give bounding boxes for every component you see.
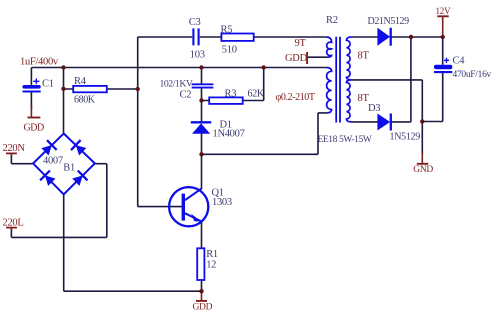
svg-text:R2: R2: [326, 15, 338, 26]
svg-text:680K: 680K: [74, 95, 96, 106]
svg-text:470uF/16v: 470uF/16v: [453, 70, 492, 80]
svg-text:C2: C2: [180, 89, 192, 100]
svg-text:220N: 220N: [3, 143, 26, 154]
svg-text:C1: C1: [42, 79, 54, 90]
svg-text:GDD: GDD: [193, 303, 213, 313]
svg-text:510: 510: [222, 45, 237, 56]
svg-text:R5: R5: [221, 24, 233, 35]
svg-text:φ0.2-210T: φ0.2-210T: [276, 92, 315, 103]
svg-text:B1: B1: [63, 163, 75, 174]
svg-text:102/1KV: 102/1KV: [160, 78, 193, 89]
svg-text:R3: R3: [225, 89, 237, 100]
svg-text:103: 103: [190, 50, 205, 61]
svg-text:GND: GND: [413, 165, 433, 175]
svg-text:12V: 12V: [436, 6, 452, 16]
svg-text:1N5129: 1N5129: [390, 132, 421, 143]
svg-text:12: 12: [206, 260, 216, 271]
svg-text:D3: D3: [368, 103, 380, 114]
svg-text:4007: 4007: [43, 156, 63, 167]
svg-text:C4: C4: [453, 56, 466, 67]
svg-text:1N4007: 1N4007: [213, 128, 245, 139]
svg-text:1uF/400v: 1uF/400v: [20, 57, 59, 68]
svg-text:EE18 5W-15W: EE18 5W-15W: [318, 135, 372, 145]
svg-text:9T: 9T: [295, 38, 307, 49]
svg-text:1303: 1303: [212, 197, 232, 208]
svg-text:D21N5129: D21N5129: [368, 16, 410, 27]
svg-text:8T: 8T: [358, 51, 370, 62]
svg-text:R4: R4: [74, 76, 87, 87]
svg-text:62K: 62K: [248, 89, 265, 100]
svg-text:220L: 220L: [3, 218, 24, 229]
svg-text:C3: C3: [189, 17, 201, 28]
svg-text:R1: R1: [206, 249, 218, 260]
svg-text:GDD: GDD: [285, 53, 308, 64]
svg-text:GDD: GDD: [24, 123, 44, 134]
